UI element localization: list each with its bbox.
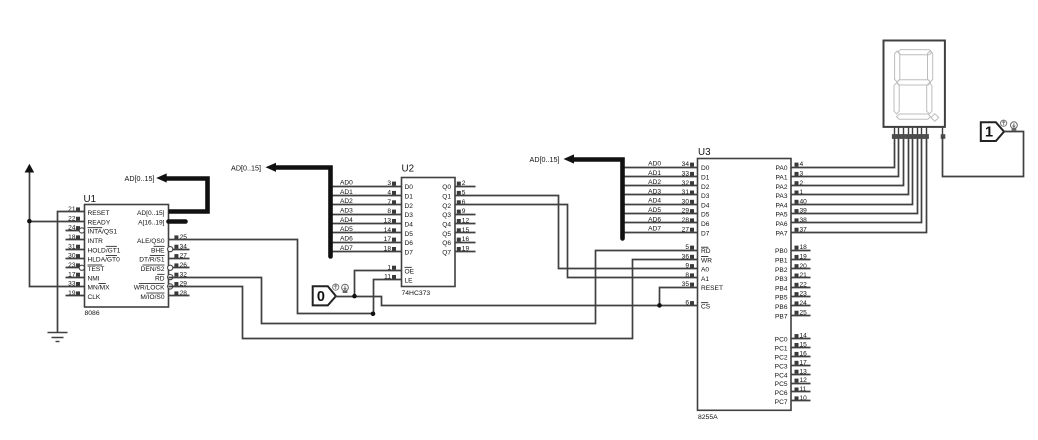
U3 pin 27 D7 with net AD7 — [623, 226, 710, 238]
svg-text:14: 14 — [384, 227, 392, 234]
U2 pin 4 D1 with net AD1 — [331, 189, 414, 201]
U3 pin 4 PA0 wire to display — [776, 137, 895, 173]
svg-text:16: 16 — [462, 236, 470, 243]
node ALE/LE junction — [371, 312, 376, 317]
U1 pin 23 TEST — [66, 262, 105, 273]
svg-text:15: 15 — [800, 342, 808, 349]
U1 pin 32 RD — [155, 271, 187, 282]
svg-text:AD[0..15]: AD[0..15] — [125, 174, 155, 183]
svg-text:NMI: NMI — [88, 275, 100, 282]
svg-text:AD[0..15]: AD[0..15] — [137, 210, 165, 217]
svg-text:Q6: Q6 — [442, 240, 451, 247]
U3 pin 8 A1 — [685, 272, 709, 283]
bus A[16..19] stub — [169, 219, 186, 224]
U3 pin 6 CS — [685, 300, 710, 311]
svg-text:ALE/QS0: ALE/QS0 — [137, 238, 165, 245]
U3 pin 31 D3 with net AD3 — [623, 188, 710, 200]
svg-text:15: 15 — [462, 227, 470, 234]
U1 pin 31 HOLD/GT1 — [66, 243, 121, 254]
svg-text:AD6: AD6 — [648, 216, 661, 223]
U3 pin 21 PB3 — [775, 272, 810, 283]
svg-text:AD5: AD5 — [648, 207, 661, 214]
svg-text:U3: U3 — [698, 147, 711, 158]
svg-text:8255A: 8255A — [698, 414, 718, 421]
svg-text:4: 4 — [800, 161, 804, 168]
svg-text:PA7: PA7 — [776, 230, 788, 237]
wire ALE to LE — [169, 240, 374, 314]
U1 pin 28 M/IO/S0 — [140, 290, 189, 301]
svg-text:PB2: PB2 — [775, 267, 788, 274]
U3 pin 36 WR — [682, 253, 713, 264]
wire RD net — [169, 251, 698, 324]
svg-text:HLDA/GT0: HLDA/GT0 — [88, 257, 121, 264]
svg-text:D4: D4 — [405, 222, 414, 229]
U2 pin 12 Q4 — [442, 218, 475, 229]
U1 pin 22 READY — [68, 215, 111, 226]
U3 pin 12 PC5 — [775, 377, 811, 388]
svg-text:WR/LOCK: WR/LOCK — [134, 285, 165, 292]
wire WR net — [169, 260, 698, 339]
svg-text:26: 26 — [180, 262, 188, 269]
svg-text:TEST: TEST — [88, 266, 105, 273]
IC U1 body (8086 CPU) — [85, 205, 169, 308]
svg-text:3: 3 — [800, 171, 804, 178]
svg-text:PA5: PA5 — [776, 212, 788, 219]
svg-text:20: 20 — [800, 263, 808, 270]
svg-text:12: 12 — [462, 218, 470, 225]
bus AD[0..15] to U2 — [266, 163, 331, 257]
display common pin — [941, 127, 946, 139]
svg-text:39: 39 — [800, 208, 808, 215]
svg-text:A[16..19]: A[16..19] — [138, 219, 165, 226]
svg-text:HOLD/GT1: HOLD/GT1 — [88, 247, 121, 254]
svg-text:21: 21 — [800, 272, 808, 279]
svg-text:11: 11 — [800, 386, 807, 393]
svg-text:PB7: PB7 — [775, 313, 788, 320]
U2 pin 15 Q5 — [442, 227, 475, 238]
svg-text:31: 31 — [682, 189, 690, 196]
svg-text:D3: D3 — [405, 212, 414, 219]
wire OE riser — [355, 271, 402, 297]
U3 pin 23 PB5 — [775, 291, 810, 302]
svg-text:D7: D7 — [405, 250, 414, 257]
U2 pin 13 D4 with net AD4 — [331, 217, 414, 229]
svg-text:PB1: PB1 — [775, 258, 788, 265]
svg-text:13: 13 — [384, 218, 392, 225]
svg-text:Q3: Q3 — [442, 212, 451, 219]
svg-text:M/IO/S0: M/IO/S0 — [140, 294, 165, 301]
wire Q1 to A0 — [455, 196, 698, 269]
svg-text:29: 29 — [682, 208, 690, 215]
logicstate 1 toggle icons — [1001, 120, 1018, 130]
U3 pin 37 PA7 wire to display — [776, 137, 927, 238]
svg-text:37: 37 — [800, 226, 808, 233]
svg-text:PB0: PB0 — [775, 248, 788, 255]
svg-text:D3: D3 — [701, 193, 710, 200]
U1 pin 27 DT/R/S1 — [139, 253, 189, 264]
svg-text:AD2: AD2 — [648, 179, 661, 186]
U2 pin 1 OE — [387, 264, 414, 275]
svg-text:30: 30 — [682, 198, 690, 205]
svg-text:28: 28 — [180, 290, 188, 297]
U3 pin 3 PA1 wire to display — [776, 137, 899, 182]
svg-text:D6: D6 — [405, 240, 414, 247]
U2 pin 3 D0 with net AD0 — [331, 180, 414, 192]
svg-text:PC1: PC1 — [775, 346, 788, 353]
svg-text:PC2: PC2 — [775, 355, 788, 362]
svg-text:1: 1 — [985, 125, 993, 141]
svg-text:Q1: Q1 — [442, 194, 451, 201]
U3 pin 9 A0 — [685, 263, 709, 274]
U2 pin 8 D3 with net AD3 — [331, 208, 414, 220]
svg-text:AD0: AD0 — [648, 161, 661, 168]
svg-text:Q0: Q0 — [442, 184, 451, 191]
svg-text:19: 19 — [800, 254, 808, 261]
svg-text:25: 25 — [800, 309, 808, 316]
svg-text:3: 3 — [387, 180, 391, 187]
svg-text:Q4: Q4 — [442, 222, 451, 229]
svg-text:PA6: PA6 — [776, 221, 788, 228]
svg-text:A0: A0 — [701, 267, 709, 274]
svg-text:AD[0..15]: AD[0..15] — [231, 164, 261, 173]
U3 pin 14 PC0 — [775, 333, 811, 344]
display body (7SEG) — [884, 41, 945, 127]
svg-text:AD5: AD5 — [340, 226, 353, 233]
svg-text:1: 1 — [800, 189, 804, 196]
svg-text:PC5: PC5 — [775, 381, 788, 388]
wire READY/MN-MX power rail — [30, 180, 85, 287]
svg-text:LE: LE — [405, 278, 414, 285]
svg-text:Q5: Q5 — [442, 231, 451, 238]
logicstate 0 toggle icons — [333, 284, 349, 293]
U3 pin 25 PB7 — [775, 309, 810, 320]
U1 pin bus A[16..19] — [138, 219, 165, 226]
ground symbol — [48, 333, 68, 342]
U3 pin 34 D0 with net AD0 — [623, 161, 710, 173]
U3 pin 33 D1 with net AD1 — [623, 170, 710, 182]
svg-text:40: 40 — [800, 198, 808, 205]
U2 pin 17 D6 with net AD6 — [331, 236, 414, 248]
svg-text:PB5: PB5 — [775, 295, 788, 302]
node CS/RESET junction — [657, 303, 662, 308]
svg-text:14: 14 — [800, 333, 808, 340]
svg-text:AD6: AD6 — [340, 236, 353, 243]
U3 pin 17 PC3 — [775, 359, 811, 370]
svg-text:READY: READY — [88, 219, 111, 226]
svg-text:31: 31 — [68, 243, 76, 250]
svg-text:34: 34 — [682, 161, 690, 168]
U2 pin 18 D7 with net AD7 — [331, 245, 414, 257]
U3 pin 39 PA5 wire to display — [776, 137, 918, 219]
svg-text:PB6: PB6 — [775, 304, 788, 311]
logicstate 1 body — [981, 122, 1004, 141]
svg-text:33: 33 — [682, 171, 690, 178]
logicstate 0 body — [313, 286, 336, 305]
svg-text:PA4: PA4 — [776, 202, 788, 209]
svg-text:PC0: PC0 — [775, 337, 788, 344]
svg-text:INTA/QS1: INTA/QS1 — [88, 229, 118, 236]
svg-text:CLK: CLK — [88, 294, 101, 301]
svg-text:RD: RD — [701, 248, 711, 255]
power symbol VCC — [25, 164, 35, 180]
svg-text:PC3: PC3 — [775, 363, 788, 370]
svg-text:27: 27 — [180, 253, 188, 260]
svg-text:D1: D1 — [701, 175, 710, 182]
U2 pin 14 D5 with net AD5 — [331, 226, 414, 238]
U1 pin 18 INTR — [66, 234, 104, 245]
U2 pin 11 LE — [384, 274, 413, 285]
svg-text:23: 23 — [800, 291, 808, 298]
svg-text:BHE: BHE — [151, 247, 165, 254]
svg-text:AD1: AD1 — [340, 189, 353, 196]
svg-text:8086: 8086 — [85, 310, 100, 317]
display segment pins — [892, 127, 929, 139]
svg-text:18: 18 — [68, 234, 76, 241]
svg-text:8: 8 — [387, 208, 391, 215]
svg-text:AD1: AD1 — [648, 170, 661, 177]
U3 pin 30 D4 with net AD4 — [623, 198, 710, 210]
svg-text:17: 17 — [384, 236, 392, 243]
svg-text:38: 38 — [800, 217, 808, 224]
svg-text:D5: D5 — [405, 231, 414, 238]
U1 pin 29 WR/LOCK — [134, 281, 188, 292]
svg-text:30: 30 — [68, 253, 76, 260]
svg-text:PC6: PC6 — [775, 390, 788, 397]
svg-text:24: 24 — [800, 300, 808, 307]
svg-text:10: 10 — [800, 395, 808, 402]
U3 pin 40 PA4 wire to display — [776, 137, 913, 210]
U3 pin 22 PB4 — [775, 281, 810, 292]
svg-text:AD3: AD3 — [340, 208, 353, 215]
U3 pin 38 PA6 wire to display — [776, 137, 922, 229]
U3 pin 2 PA2 wire to display — [776, 137, 904, 191]
svg-text:RD: RD — [155, 275, 165, 282]
U1 pin bus AD[0..15] — [137, 210, 165, 217]
svg-text:23: 23 — [68, 262, 76, 269]
wire LE riser — [374, 280, 402, 314]
U2 pin 16 Q6 — [442, 236, 475, 247]
wire RESET to ground — [58, 212, 85, 333]
svg-text:18: 18 — [800, 244, 808, 251]
wire READY to rail — [30, 221, 85, 223]
svg-text:32: 32 — [682, 180, 690, 187]
U3 pin 20 PB2 — [775, 263, 810, 274]
svg-text:D2: D2 — [405, 203, 414, 210]
U2 pin 9 Q3 — [442, 208, 475, 219]
svg-text:D5: D5 — [701, 212, 710, 219]
U3 pin 28 D6 with net AD6 — [623, 216, 710, 228]
svg-text:AD7: AD7 — [648, 226, 661, 233]
node READY-rail junction — [27, 219, 32, 224]
U3 pin 29 D5 with net AD5 — [623, 207, 710, 219]
svg-text:D7: D7 — [701, 230, 710, 237]
svg-text:D0: D0 — [701, 165, 710, 172]
svg-text:U2: U2 — [402, 163, 415, 174]
U1 pin 30 HLDA/GT0 — [66, 253, 121, 264]
svg-text:9: 9 — [462, 208, 466, 215]
U3 pin 18 PB0 — [775, 244, 810, 255]
svg-text:DEN/S2: DEN/S2 — [141, 266, 165, 273]
svg-text:RESET: RESET — [701, 285, 723, 292]
U1 pin 26 DEN/S2 — [141, 262, 190, 273]
svg-text:2: 2 — [800, 180, 804, 187]
svg-text:12: 12 — [800, 377, 808, 384]
svg-text:WR: WR — [701, 257, 712, 264]
svg-text:13: 13 — [800, 368, 808, 375]
svg-text:D4: D4 — [701, 202, 710, 209]
U1 pin 33 MN/MX — [68, 281, 110, 292]
ppi U3 body (8255A) — [698, 159, 792, 411]
svg-text:PA0: PA0 — [776, 165, 788, 172]
svg-text:OE: OE — [405, 268, 415, 275]
svg-text:RESET: RESET — [88, 210, 110, 217]
svg-text:CS: CS — [701, 304, 711, 311]
node OE junction — [352, 294, 357, 299]
svg-text:18: 18 — [384, 246, 392, 253]
svg-text:U1: U1 — [84, 194, 97, 205]
svg-text:7: 7 — [387, 199, 391, 206]
svg-text:PC7: PC7 — [775, 399, 788, 406]
svg-text:2: 2 — [462, 180, 466, 187]
svg-text:0: 0 — [317, 289, 325, 305]
U3 pin 5 RD — [685, 244, 710, 255]
svg-text:AD3: AD3 — [648, 188, 661, 195]
svg-text:22: 22 — [800, 281, 808, 288]
latch U2 body (74HC373) — [402, 178, 456, 287]
svg-text:AD7: AD7 — [340, 245, 353, 252]
U1 pin 24 INTA/QS1 — [66, 225, 118, 236]
wire logicstate0 to OE and CS — [336, 297, 698, 306]
U2 pin 5 Q1 — [442, 190, 466, 201]
svg-text:AD2: AD2 — [340, 198, 353, 205]
svg-text:D0: D0 — [405, 184, 414, 191]
svg-text:28: 28 — [682, 217, 690, 224]
svg-text:Q7: Q7 — [442, 250, 451, 257]
svg-text:AD0: AD0 — [340, 180, 353, 187]
svg-text:PA3: PA3 — [776, 193, 788, 200]
svg-text:17: 17 — [800, 359, 808, 366]
U1 pin 21 RESET — [68, 206, 109, 217]
bus AD[0..15] to U3 — [564, 154, 623, 238]
svg-text:PA1: PA1 — [776, 175, 788, 182]
svg-text:PC4: PC4 — [775, 372, 788, 379]
U2 pin 2 Q0 — [442, 180, 475, 191]
svg-text:DT/R/S1: DT/R/S1 — [139, 257, 165, 264]
svg-text:74HC373: 74HC373 — [402, 290, 431, 297]
U3 pin 10 PC7 — [775, 395, 811, 406]
svg-text:4: 4 — [387, 190, 391, 197]
svg-text:24: 24 — [68, 225, 76, 232]
U3 pin 11 PC6 — [775, 386, 811, 397]
svg-text:16: 16 — [800, 351, 808, 358]
svg-text:19: 19 — [68, 290, 76, 297]
svg-text:D6: D6 — [701, 221, 710, 228]
U3 pin 19 PB1 — [775, 254, 810, 265]
wire RESET riser — [660, 288, 698, 306]
svg-text:17: 17 — [68, 271, 76, 278]
U3 pin 13 PC4 — [775, 368, 811, 379]
svg-text:19: 19 — [462, 246, 470, 253]
svg-text:AD4: AD4 — [648, 198, 661, 205]
svg-text:PA2: PA2 — [776, 184, 788, 191]
svg-text:MN/MX: MN/MX — [88, 285, 111, 292]
svg-text:PB4: PB4 — [775, 285, 788, 292]
display segments — [894, 50, 939, 122]
svg-text:D1: D1 — [405, 194, 414, 201]
svg-text:27: 27 — [682, 226, 690, 233]
U2 pin 19 Q7 — [442, 246, 475, 257]
svg-text:INTR: INTR — [88, 238, 104, 245]
svg-text:AD4: AD4 — [340, 217, 353, 224]
U3 pin 24 PB6 — [775, 300, 810, 311]
svg-text:Q2: Q2 — [442, 203, 451, 210]
U1 pin 19 CLK — [66, 290, 101, 301]
svg-text:PB3: PB3 — [775, 276, 788, 283]
U1 pin 17 NMI — [66, 271, 100, 282]
U2 pin 6 Q2 — [442, 199, 466, 210]
U3 pin 15 PC1 — [775, 342, 811, 353]
U1 pin 34 BHE — [151, 243, 190, 254]
U1 pin 25 ALE/QS0 — [137, 234, 187, 245]
U3 pin 35 RESET — [682, 281, 723, 292]
wire logicstate1 to display common — [943, 132, 1024, 177]
wire Q2 to A1 — [455, 205, 698, 278]
svg-text:34: 34 — [180, 243, 188, 250]
bus AD[0..15] from U1 — [156, 173, 207, 211]
U3 pin 32 D2 with net AD2 — [623, 179, 710, 191]
U2 pin 7 D2 with net AD2 — [331, 198, 414, 210]
U3 pin 1 PA3 wire to display — [776, 137, 909, 201]
svg-text:A1: A1 — [701, 276, 709, 283]
svg-text:D2: D2 — [701, 184, 710, 191]
U3 pin 16 PC2 — [775, 351, 811, 362]
svg-text:AD[0..15]: AD[0..15] — [530, 155, 560, 164]
